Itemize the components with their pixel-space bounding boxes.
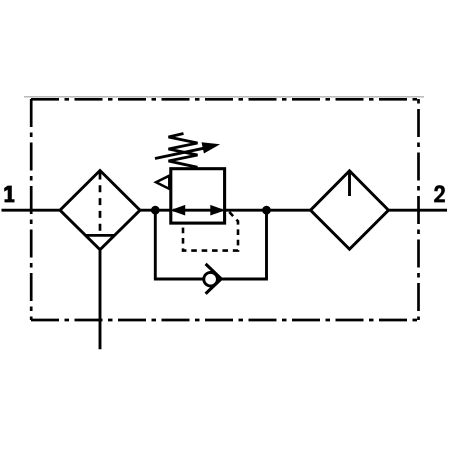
regulator flow path (double arrow): [170, 205, 225, 216]
filter F1 (diamond with element and separator): [60, 171, 140, 250]
node B (junction regulator/lubricator): [262, 206, 271, 215]
wire: port 1 to filter inlet: [2, 209, 61, 212]
gray table rule: [24, 96, 424, 98]
enclosure border (dash-dot frame) top: [31, 98, 418, 101]
wire: bypass bottom right: [221, 278, 268, 281]
port label 2: [434, 185, 445, 202]
check valve V1: [204, 264, 221, 294]
wire: bypass down from node A: [154, 210, 157, 279]
node A (junction filter/regulator): [151, 206, 160, 215]
wire: filter outlet to regulator inlet: [140, 209, 171, 212]
enclosure border left: [30, 99, 33, 320]
port label 1: [4, 186, 14, 203]
pilot line (dashed): [183, 212, 238, 251]
drain line: [99, 250, 102, 350]
spring (adjustable): [169, 134, 198, 168]
wire: bypass bottom left: [154, 278, 204, 281]
adjustment arrow: [155, 142, 220, 158]
vent triangle (relieving port): [156, 176, 169, 189]
wire: regulator outlet to lubricator inlet: [225, 209, 311, 212]
regulator body: [171, 169, 225, 223]
wire: bypass up to node B: [265, 210, 268, 279]
wire: lubricator outlet to port 2: [389, 209, 448, 212]
enclosure border right: [417, 99, 420, 320]
lubricator (diamond with drip): [311, 171, 389, 249]
enclosure border bottom: [31, 319, 418, 322]
